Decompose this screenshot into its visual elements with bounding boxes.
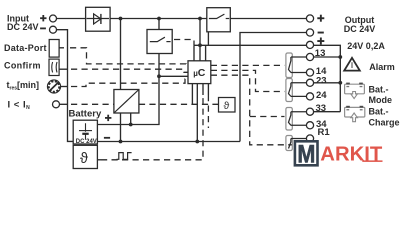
dashed mode switch control [174,40,194,46]
current sense terminal [53,101,60,108]
svg-text:ARKIT: ARKIT [320,143,382,166]
wire 24V 0,2A rail [194,45,306,61]
DC/DC charger U2 [114,90,139,114]
svg-text:24V 0,2A: 24V 0,2A [347,41,385,51]
microcontroller uC [188,61,211,84]
wire diode to main switch [110,18,207,20]
wire minus bus [97,141,240,143]
svg-text:tres[min]: tres[min] [7,80,40,92]
alarm triangle [344,58,360,71]
battery box [73,120,97,144]
bat-charge icon [345,106,365,122]
svg-text:Data-Port: Data-Port [4,43,47,53]
input terminal minus [50,26,57,33]
dashed uC to alarm relay [211,64,285,66]
wire terminal 13 to bus [314,56,341,58]
relay bracket 13/14 [286,53,292,78]
main switch S1 [207,8,231,32]
wire output minus [240,33,306,142]
svg-text:Mode: Mode [369,95,393,105]
relay bracket 33/34 [286,108,292,131]
wire data-port lead [59,47,64,49]
wire main switch control lead [206,32,209,61]
wire current-sense lead [60,103,68,105]
svg-text:24: 24 [316,90,327,101]
terminal 24 [306,93,313,100]
confirm button [49,59,59,75]
svg-text:Bat.-: Bat.- [369,107,389,117]
relay bracket 23/24 [286,79,292,102]
wire battery plus line [97,54,159,125]
svg-text:Battery: Battery [69,108,102,119]
terminal 33 [306,108,313,115]
wire input plus to diode [56,18,85,20]
wire charger to minus bus [120,113,122,142]
wire pot lead [61,86,68,88]
square wave symbol [117,153,132,160]
wire uC supply riser [199,19,201,61]
wire mode switch top lead [158,19,160,30]
wire confirm lead [59,68,67,70]
dashed confirm to uC [71,69,188,72]
dashed uC pin 4 stub [207,95,209,128]
svg-text:DC 24V: DC 24V [344,24,376,34]
svg-text:DC 24V: DC 24V [7,22,39,32]
wire battery temp lead [97,159,101,161]
terminal 0,2A plus [306,41,313,48]
svg-text:Alarm: Alarm [369,62,395,72]
svg-text:33: 33 [316,103,327,114]
terminal 13 [306,53,313,60]
terminal 34 [306,122,313,129]
bat-mode icon [345,83,365,99]
data-port box [49,40,59,58]
svg-text:13: 13 [315,48,326,59]
svg-text:I < IN: I < IN [8,100,31,112]
wire 0,2A rail to relay bus [314,45,341,111]
relay contact 23/24 [289,83,307,97]
wire battery plus to uC [159,75,188,77]
svg-text:Bat.-: Bat.- [369,85,389,95]
dashed charger to temp box [139,103,219,105]
svg-text:23: 23 [316,76,327,87]
dashed uC to bat-charge and R1 relays [211,75,292,145]
svg-text:ϑ: ϑ [224,100,230,112]
diode box D1 [86,7,111,31]
dashed battery temp to uC [101,95,203,160]
svg-text:µC: µC [193,67,206,79]
svg-text:Charge: Charge [369,118,400,128]
relay contact R1 [289,139,307,149]
dashed branch to bat-charge relay [250,116,285,118]
relay bracket R1 [286,136,292,151]
potentiometer t[min] [47,80,60,93]
dashed current sense to charger [71,103,114,105]
logo IT underline [362,160,382,162]
wire input minus down to battery [56,30,73,142]
temp control box [219,98,236,113]
svg-text:DC 24V: DC 24V [76,139,97,145]
logo M box [295,140,318,168]
battery temp sensor box [73,145,97,168]
wire uC bottom pin 4 [207,84,209,95]
svg-text:R1: R1 [318,127,331,138]
relay contact 33/34 [289,112,307,126]
svg-text:M: M [297,140,315,168]
dashed data-port to uC [70,48,188,67]
terminal 14 [306,69,313,76]
input terminal plus [50,15,57,22]
wire terminal 33 to bus [314,111,341,113]
wire charger riser [120,19,122,90]
dashed uC to bat-mode relay [211,70,285,91]
wire uC bottom pin 3 [202,84,204,95]
terminal output plus [306,15,313,22]
svg-text:ϑ: ϑ [80,151,88,167]
wire main switch to output plus [230,18,306,20]
relay contact 13/14 [289,57,307,73]
terminal 23 [306,79,313,86]
terminal R1 [306,135,313,142]
wire charger to battery plus [130,113,132,125]
wire terminal 23 to bus [314,82,341,84]
wire uC ground pin [196,84,198,142]
svg-text:Confirm: Confirm [4,61,41,71]
terminal output minus [306,29,313,36]
wire uC bottom pin 1 [191,84,193,105]
mode switch S2 [147,30,172,54]
dashed pot to uC [71,79,188,87]
output terminals column [306,15,313,142]
